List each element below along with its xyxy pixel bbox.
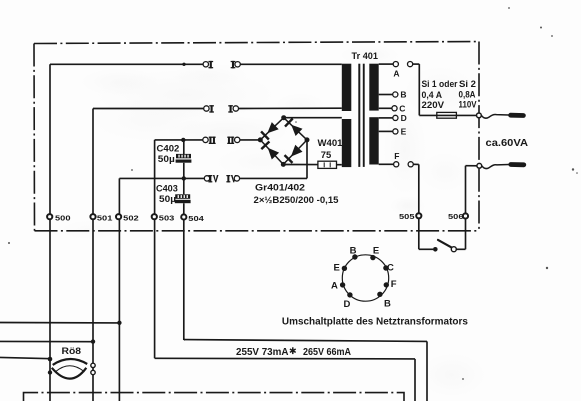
wire 502 vertical — [118, 178, 120, 401]
switch plate circle — [342, 255, 388, 301]
capacitor C402 — [176, 154, 192, 163]
plug pin upper — [511, 113, 524, 118]
label IV left — [208, 175, 218, 182]
junction row3/C402 — [181, 138, 185, 142]
label C403 value 50µ — [159, 194, 176, 205]
svg-text:F: F — [394, 151, 399, 161]
wire 502 branch left — [0, 322, 121, 324]
wire 505 vertical — [418, 164, 420, 249]
connector II left — [203, 137, 208, 142]
label I right row1 — [231, 61, 236, 68]
svg-text:F: F — [391, 279, 397, 290]
fuse Si1/Si2 — [437, 112, 457, 118]
svg-text:50µ: 50µ — [158, 154, 175, 165]
transformer core — [358, 64, 364, 167]
label ca.60VA — [486, 137, 529, 149]
wire row2 left — [93, 108, 204, 110]
switch contact — [433, 247, 438, 252]
svg-text:502: 502 — [123, 213, 139, 222]
label 503 — [159, 214, 175, 223]
heater Rö8 upper arc — [53, 359, 87, 365]
tap A stub — [379, 63, 394, 65]
heater pin left upper — [48, 357, 52, 361]
diode bottom-right (arrow to bottom vertex) — [285, 145, 303, 163]
switch plate pin E — [370, 255, 375, 260]
junction row4/C403 — [182, 176, 186, 180]
connector I2 left — [204, 106, 209, 111]
switch plate label E7 — [334, 263, 340, 274]
frame top edge — [34, 42, 479, 44]
wire bridge right vertex down to row4 — [306, 140, 308, 179]
label 501 — [97, 213, 113, 222]
bridge edge top-left — [260, 118, 283, 140]
label I left row2 — [209, 105, 214, 112]
svg-text:ca.60VA: ca.60VA — [486, 137, 529, 149]
wire fuse corner down — [418, 64, 420, 115]
label II right — [227, 137, 234, 144]
label W401 value 75 — [321, 150, 332, 161]
label Rö8 — [62, 346, 82, 356]
plug lead upper — [481, 114, 508, 118]
svg-text:265V 66mA: 265V 66mA — [303, 347, 351, 358]
svg-text:501: 501 — [97, 213, 113, 222]
svg-text:506: 506 — [448, 212, 464, 221]
svg-text:Gr401/402: Gr401/402 — [255, 183, 305, 194]
svg-text:Si 1 oder: Si 1 oder — [422, 79, 458, 89]
heater pin left lower — [48, 370, 52, 374]
switch plate pin C — [383, 265, 388, 270]
svg-text:0,8A: 0,8A — [459, 90, 476, 100]
svg-text:110V: 110V — [459, 99, 478, 110]
tap E circle — [393, 129, 398, 134]
svg-text:220V: 220V — [422, 100, 445, 111]
switch plate pin D — [347, 292, 352, 297]
label 0,4 A — [422, 90, 443, 100]
bridge edge bottom-left — [260, 140, 283, 165]
diode top-right (arrow to top vertex) — [285, 119, 303, 137]
wire row4 left — [119, 177, 204, 179]
wire 504 horizontal — [185, 340, 428, 342]
label 502 — [123, 213, 139, 222]
connector IV right — [234, 176, 239, 181]
switch pivot — [451, 247, 456, 252]
wire 500 vertical — [49, 64, 51, 401]
wire 504 down — [426, 341, 428, 401]
wire C-column mid — [183, 163, 185, 194]
heater Rö8 lower arc — [52, 368, 87, 379]
resistor W401 — [318, 161, 337, 168]
switch plate pin A — [340, 282, 345, 287]
lower frame — [24, 393, 405, 401]
heater pin right lower — [91, 370, 95, 374]
tap B circle — [393, 92, 398, 97]
terminal 506 — [463, 213, 468, 218]
connector I right — [235, 62, 240, 67]
svg-text:255V 73mA: 255V 73mA — [236, 347, 289, 358]
frame bottom edge — [35, 230, 480, 232]
tap C stub — [379, 107, 392, 109]
diode top-left (arrow to left vertex) — [261, 122, 279, 139]
connector I2 right — [233, 106, 238, 111]
switch plate label B4 — [384, 298, 391, 309]
wire row3 right to bridge — [240, 139, 258, 141]
wire row4 right — [240, 177, 307, 179]
label D — [401, 113, 407, 123]
svg-text:Tr 401: Tr 401 — [352, 51, 379, 62]
label Tr401 — [352, 51, 379, 62]
wire through fuse — [419, 114, 479, 116]
transformer secondary winding upper — [369, 64, 378, 111]
wire row1 left — [50, 63, 203, 65]
label F — [394, 151, 399, 161]
switch plate pin B — [377, 292, 382, 297]
svg-text:B: B — [400, 90, 406, 100]
svg-text:E: E — [334, 263, 340, 274]
bridge node left — [258, 137, 263, 142]
tap B stub — [379, 94, 393, 96]
label 255V 73mA — [236, 347, 289, 358]
label 220V — [422, 100, 445, 111]
switch plate pin E — [342, 266, 347, 271]
svg-text:504: 504 — [188, 214, 205, 223]
transformer primary winding lower — [342, 119, 352, 167]
wire bridge top to transformer — [284, 117, 342, 119]
terminal 502 — [116, 214, 121, 219]
label I right row2 — [228, 105, 233, 112]
tap D circle — [393, 115, 398, 120]
svg-text:C403: C403 — [156, 184, 178, 194]
svg-text:B: B — [350, 246, 357, 257]
tap F circle pair — [394, 162, 414, 167]
tap E stub — [379, 130, 393, 132]
label C403 — [156, 184, 178, 194]
switch plate label C2 — [387, 263, 394, 274]
switch plate label B0 — [350, 246, 357, 257]
label Gr401/402 — [255, 183, 305, 194]
terminal 501 — [90, 214, 95, 219]
plug pin lower — [511, 162, 524, 167]
svg-text:75: 75 — [321, 150, 332, 161]
plug node upper — [477, 113, 482, 118]
heater pin right upper — [91, 363, 95, 367]
wire row3 left — [155, 139, 203, 141]
svg-text:A: A — [393, 69, 399, 79]
switch plate label A6 — [331, 280, 338, 291]
terminal 505 — [416, 213, 421, 218]
node junction speck on row1 — [182, 63, 185, 66]
plug lead lower — [482, 165, 510, 169]
wire 506 vertical — [465, 166, 467, 250]
wire 504 corner — [184, 339, 185, 341]
connector IV left — [204, 176, 209, 181]
junction 500 branch — [48, 357, 52, 361]
wire row1 right — [240, 63, 341, 65]
capacitor C403 — [175, 194, 191, 203]
svg-text:B: B — [384, 298, 391, 309]
svg-text:W401: W401 — [318, 138, 344, 149]
svg-text:0,4 A: 0,4 A — [422, 90, 443, 100]
label C402 value 50µ — [158, 154, 175, 165]
wire 503 down — [414, 359, 416, 401]
svg-text:Si 2: Si 2 — [459, 79, 476, 89]
wire bridge bottom to resistor — [283, 164, 318, 166]
plug node lower — [477, 163, 482, 168]
terminal 500 — [47, 214, 52, 219]
label B — [400, 90, 406, 100]
svg-text:505: 505 — [399, 212, 415, 221]
label A — [393, 69, 399, 79]
terminal 503 — [152, 214, 157, 219]
bridge edge top-right — [284, 118, 307, 140]
label 265V 66mA — [303, 347, 351, 358]
bridge node right — [305, 137, 310, 142]
label 506 — [448, 212, 464, 221]
wire 503 horizontal — [155, 357, 415, 360]
svg-text:500: 500 — [55, 213, 71, 222]
label 505 — [399, 212, 415, 221]
label 110V — [459, 99, 478, 110]
wire 501 branch left — [0, 340, 94, 342]
tap A circle pair — [393, 62, 413, 67]
label 504 — [188, 214, 205, 223]
tap D stub — [379, 117, 393, 119]
switch plate pin B — [352, 254, 357, 259]
wire tap F to corner — [413, 163, 418, 165]
wire C-column upper — [183, 140, 185, 154]
wire row2 right — [239, 107, 342, 109]
transformer primary winding upper — [342, 64, 352, 111]
svg-text:C: C — [387, 263, 394, 274]
svg-text:E: E — [373, 246, 379, 257]
label II left — [209, 137, 216, 144]
wire plug lower horizontal — [466, 165, 480, 167]
connector II right — [235, 137, 240, 142]
switch blade — [438, 240, 453, 248]
label Si 1 oder — [422, 79, 458, 89]
svg-text:503: 503 — [159, 214, 175, 223]
frame right edge — [478, 42, 480, 231]
bridge edge bottom-right — [283, 140, 307, 165]
svg-text:C402: C402 — [157, 144, 180, 154]
label E — [401, 127, 407, 137]
label 500 — [55, 213, 71, 222]
wire 500 branch left — [0, 357, 51, 358]
switch plate label E1 — [373, 246, 379, 257]
bridge node top — [281, 115, 286, 120]
wire tap A to fuse corner — [413, 63, 420, 65]
label Si 2 — [459, 79, 476, 89]
svg-text:50µ: 50µ — [159, 194, 176, 205]
connector I left — [203, 62, 208, 67]
label C — [399, 104, 405, 114]
wire 503 vertical — [154, 140, 156, 358]
tap F stub — [379, 163, 394, 165]
label C402 — [157, 144, 180, 154]
switch plate label D5 — [343, 299, 350, 310]
wire C-column lower — [183, 203, 185, 340]
label W401 — [318, 138, 344, 149]
svg-text:E: E — [401, 127, 407, 137]
svg-text:Umschaltplatte des Netztransfo: Umschaltplatte des Netztransformators — [282, 316, 468, 327]
caption Umschaltplatte — [282, 316, 468, 327]
diode bottom-left (arrow to left vertex) — [261, 142, 279, 160]
heater Rö8 inner arc — [55, 366, 84, 372]
svg-text:A: A — [331, 280, 338, 291]
svg-text:D: D — [401, 113, 407, 123]
asterisk mark — [290, 347, 296, 354]
label I left row1 — [208, 61, 213, 68]
svg-text:Rö8: Rö8 — [62, 346, 82, 356]
wire resistor to transformer — [337, 164, 342, 166]
switch plate label F3 — [391, 279, 397, 290]
label IV right — [226, 175, 236, 182]
transformer secondary winding lower — [369, 117, 378, 164]
junction 502 branch — [117, 321, 121, 325]
junction 501 branch — [91, 339, 95, 343]
svg-text:2×½B250/200 -0,15: 2×½B250/200 -0,15 — [254, 195, 340, 206]
wire switch right — [456, 248, 465, 250]
wire switch left — [419, 248, 433, 250]
wire 501 vertical — [92, 109, 94, 401]
terminal 504 — [181, 214, 186, 219]
switch plate pin F — [384, 282, 389, 287]
tap C circle — [392, 106, 397, 111]
frame left edge — [33, 44, 36, 231]
label bridge type 2x½B250/200-0,15 — [254, 195, 340, 206]
label 0,8A — [459, 90, 476, 100]
svg-text:D: D — [343, 299, 350, 310]
bridge node bottom — [281, 162, 286, 167]
